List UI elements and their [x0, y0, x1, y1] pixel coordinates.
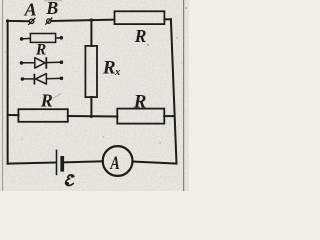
scan frame right	[183, 0, 185, 191]
battery cell: long thin plate	[56, 150, 58, 176]
wire ammeter to right rail	[132, 162, 176, 164]
top edge smudge	[44, 0, 62, 1]
wire left rail	[7, 20, 9, 163]
wire Rx bottom drop	[90, 97, 92, 117]
resistor R (top right)	[115, 11, 165, 24]
wire bottom left to battery	[8, 163, 55, 164]
wire top-right resistor to right rail	[164, 18, 171, 20]
svg-text:R: R	[133, 91, 147, 112]
scan frame left	[2, 0, 4, 191]
svg-text:x: x	[114, 67, 120, 78]
wire battery to ammeter	[64, 161, 103, 162]
svg-text:R: R	[102, 58, 116, 79]
svg-text:R: R	[40, 90, 53, 110]
resistor R (middle right)	[117, 109, 164, 124]
wire middle left rail to R	[8, 114, 19, 116]
svg-text:A: A	[24, 0, 37, 20]
battery cell: short thick plate	[60, 156, 64, 172]
wire top-left to terminal A	[7, 20, 29, 22]
candidate element resistor R (with terminal dots)	[20, 34, 63, 43]
wire Rx top drop	[90, 20, 92, 46]
wire middle right R to right rail	[164, 115, 174, 117]
scan specks	[4, 7, 187, 144]
candidate diode D1 (pointing right)	[20, 57, 64, 68]
candidate diode D2 (pointing left)	[21, 74, 64, 85]
label EMF script E	[66, 175, 74, 186]
terminal A	[28, 18, 35, 25]
svg-text:B: B	[45, 0, 58, 18]
ammeter A1 circle	[103, 146, 133, 176]
junction node (Rx top)	[90, 18, 93, 21]
svg-text:R: R	[134, 26, 147, 46]
terminal B	[45, 18, 52, 25]
resistor R (middle left)	[18, 109, 67, 122]
wire middle R to R (through Rx junction)	[68, 115, 118, 118]
wire right rail	[171, 19, 177, 163]
svg-text:A: A	[110, 152, 120, 174]
svg-text:R: R	[35, 41, 46, 58]
wire terminal B to top-right resistor	[52, 20, 115, 21]
scan scratch near left R label	[53, 94, 62, 99]
resistor Rx (vertical)	[85, 46, 97, 97]
